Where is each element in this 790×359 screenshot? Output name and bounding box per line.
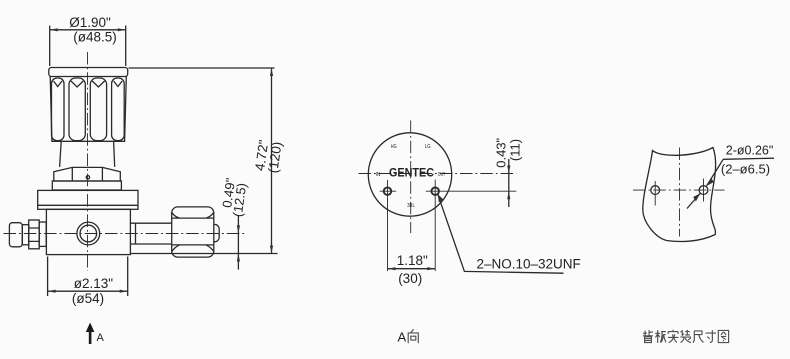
knob flute slot 4 bbox=[112, 78, 125, 141]
dimension line 0.43 bbox=[508, 159, 510, 207]
face circle bbox=[368, 133, 451, 216]
mounting hole left (view A) bbox=[384, 187, 392, 195]
view direction arrow A bbox=[89, 330, 92, 344]
flute V-notch 4 bbox=[114, 81, 123, 87]
centerline vertical (left view) bbox=[87, 52, 89, 271]
caption xiang glyph bbox=[408, 329, 418, 343]
extension lines dia2.13 bbox=[48, 257, 128, 297]
panel hole right crosshair bbox=[703, 179, 705, 202]
svg-text:(11): (11) bbox=[507, 139, 522, 161]
knob flute slot 2 bbox=[69, 78, 85, 141]
svg-text:ø2.13": ø2.13" bbox=[74, 276, 114, 291]
knob flute slot 1 bbox=[52, 78, 65, 141]
hole left crosshair + extension bbox=[380, 180, 397, 271]
svg-text:(2–ø6.5): (2–ø6.5) bbox=[721, 161, 770, 176]
svg-text:LG: LG bbox=[425, 144, 431, 150]
spring flange bbox=[38, 190, 138, 209]
svg-text:(ø54): (ø54) bbox=[72, 291, 104, 306]
knob body outline bbox=[50, 77, 126, 142]
svg-text:A: A bbox=[97, 332, 105, 344]
knob flute slot 3 bbox=[90, 78, 106, 141]
knob top cap bbox=[49, 68, 128, 77]
svg-text:2-ø0.26": 2-ø0.26" bbox=[726, 143, 774, 157]
centerline vertical (view A) bbox=[410, 121, 412, 234]
leader upper with arrow bbox=[707, 158, 774, 186]
bonnet band bbox=[52, 181, 121, 190]
dimension line 4.72 bbox=[271, 68, 273, 254]
extension line body bottom (4.72/0.49) bbox=[131, 253, 278, 255]
svg-text:OUT: OUT bbox=[438, 172, 445, 178]
centerline horizontal (view A) bbox=[359, 173, 517, 175]
hole right crosshair + extension bbox=[426, 180, 517, 271]
outlet tip bbox=[214, 225, 219, 242]
svg-text:(ø48.5): (ø48.5) bbox=[73, 30, 117, 45]
panel outline bbox=[643, 148, 716, 242]
svg-text:(30): (30) bbox=[398, 271, 422, 286]
svg-text:3BL: 3BL bbox=[407, 203, 415, 209]
outlet hex nut bbox=[172, 207, 214, 257]
inlet plate bbox=[39, 222, 46, 246]
centerline horizontal (panel) bbox=[633, 189, 725, 191]
caption back panel mounting (simplified CJK) bbox=[643, 330, 729, 343]
dimension line 0.49 bbox=[237, 216, 239, 270]
panel hole left bbox=[651, 186, 660, 195]
valve body bbox=[46, 209, 130, 254]
svg-text:2–NO.10–32UNF: 2–NO.10–32UNF bbox=[477, 256, 581, 271]
svg-text:GENTEC: GENTEC bbox=[389, 168, 434, 180]
bonnet neck bbox=[60, 141, 115, 167]
dimension line dia2.13 bbox=[48, 290, 128, 292]
gauge port inner bbox=[80, 225, 97, 242]
inlet spacer bbox=[22, 225, 28, 245]
leader lower arrow bbox=[687, 193, 700, 208]
svg-text:A: A bbox=[398, 330, 407, 345]
flute V-notch 3 bbox=[92, 81, 104, 87]
gauge port outer bbox=[77, 222, 100, 245]
bonnet hex dot bbox=[86, 176, 89, 179]
svg-text:Ø1.90": Ø1.90" bbox=[69, 15, 111, 30]
flute V-notch 2 bbox=[71, 81, 83, 87]
extension line knob top (4.72) bbox=[129, 67, 275, 69]
svg-text:IN: IN bbox=[376, 172, 381, 178]
outlet tube bbox=[130, 223, 172, 244]
bonnet hex nut bbox=[54, 167, 121, 181]
panel hole right bbox=[699, 186, 708, 195]
extension lines dia1.90 bbox=[50, 26, 126, 67]
horizontal centerline (left view) bbox=[4, 233, 248, 235]
svg-text:HG: HG bbox=[391, 144, 397, 150]
dimension line 1.18 bbox=[388, 268, 436, 270]
leader line to thread note bbox=[438, 194, 564, 273]
svg-text:0.43": 0.43" bbox=[494, 137, 509, 167]
dimension line dia1.90 bbox=[50, 29, 126, 31]
inlet end cap bbox=[9, 223, 22, 247]
centerline vertical (panel) bbox=[679, 148, 681, 237]
panel hole left crosshair bbox=[654, 181, 656, 206]
flute V-notch 1 bbox=[54, 81, 63, 87]
inlet hex nut bbox=[29, 220, 40, 249]
mounting hole right (view A) bbox=[431, 187, 439, 195]
svg-text:1.18": 1.18" bbox=[397, 253, 428, 268]
